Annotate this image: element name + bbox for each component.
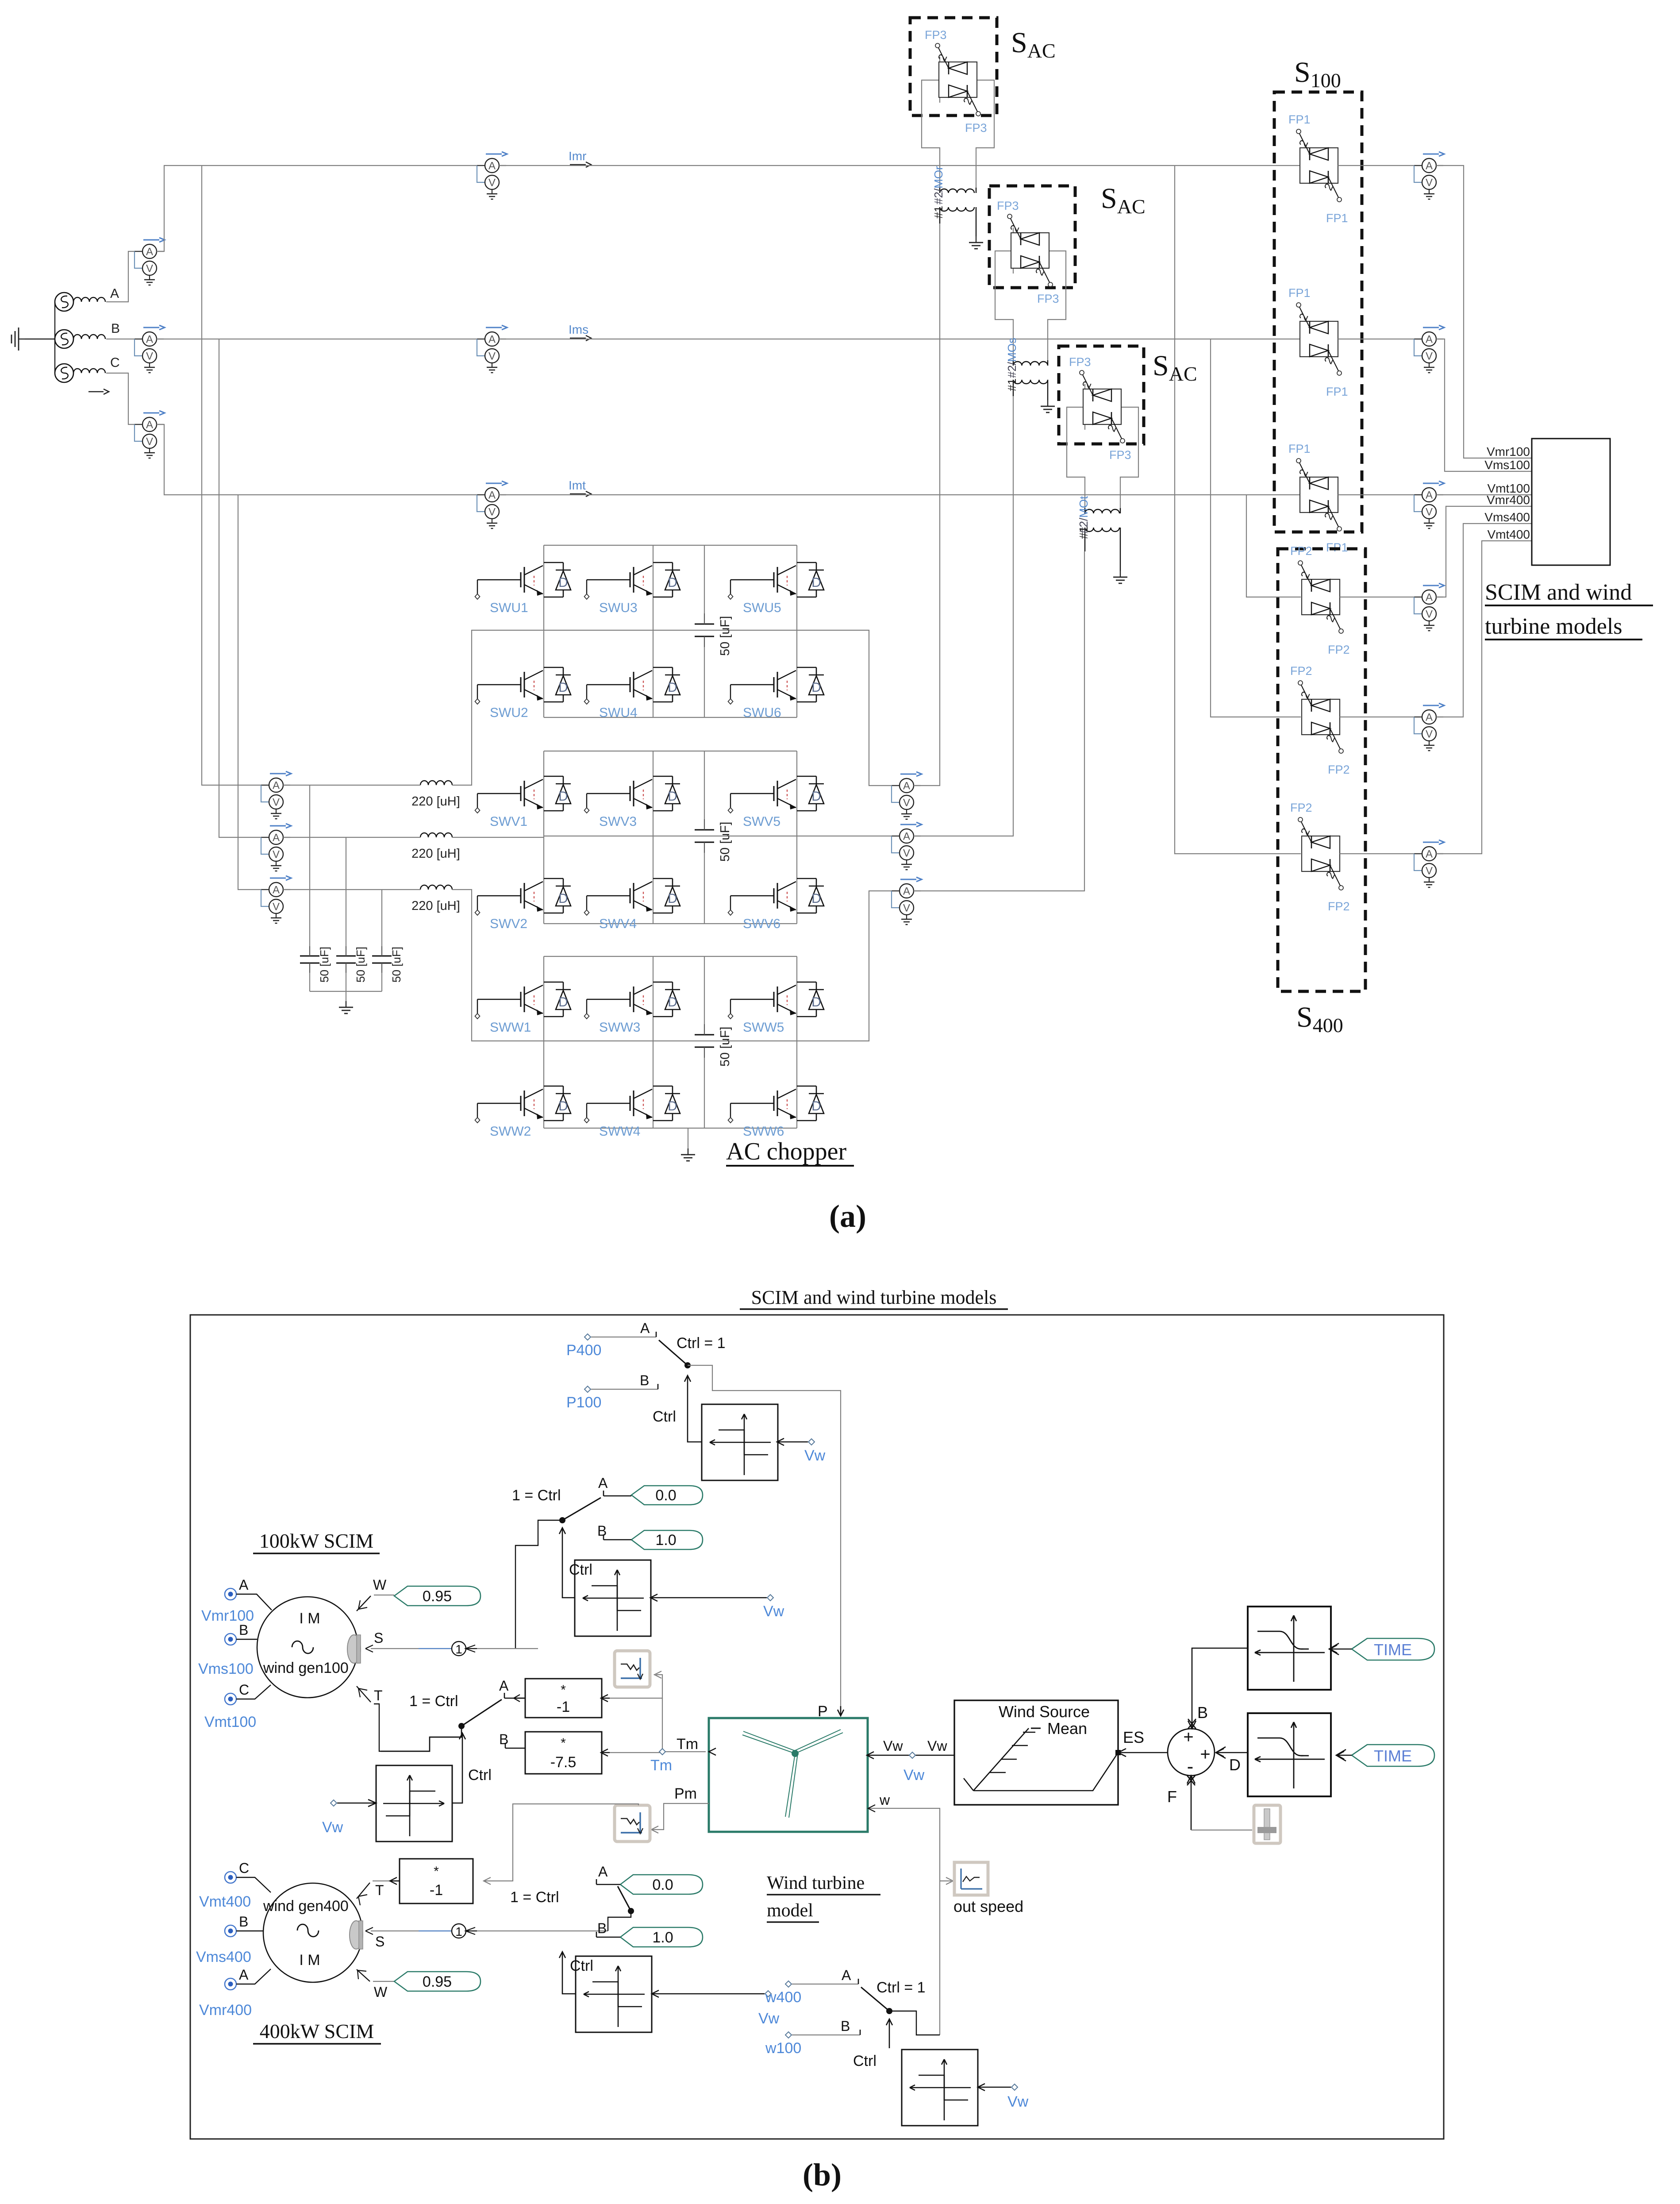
svg-text:Vms400: Vms400: [1484, 510, 1530, 524]
thyristor pair S400 at y=1929: [1298, 817, 1343, 890]
wire bypass outline phase r: [939, 57, 940, 103]
svg-text:Vw: Vw: [322, 1819, 343, 1836]
comparator Ctrl box 3 (mirrored): [376, 1765, 452, 1842]
svg-text:w100: w100: [765, 2040, 801, 2057]
svg-text:FP3: FP3: [1109, 448, 1131, 462]
multiplier * -1 (400kW): [390, 1859, 473, 1903]
IGBT SWW4 with antiparallel diode: [584, 1086, 680, 1123]
switch5 arm and dot: [861, 1987, 892, 2014]
wire Ims to S400 phase s: [1211, 339, 1301, 717]
svg-text:B: B: [640, 1372, 649, 1388]
wire S100 s to meter: [1338, 339, 1422, 339]
chopper bridge V frame: [544, 751, 797, 924]
svg-text:SWV3: SWV3: [599, 814, 637, 829]
wire Vmt400 riser: [1436, 541, 1532, 854]
svg-text:1 = Ctrl: 1 = Ctrl: [409, 1693, 458, 1710]
svg-text:Ctrl: Ctrl: [569, 1561, 592, 1578]
wire F to slider: [1191, 1830, 1252, 1830]
thyristor pair S100 at y=1118: [1296, 459, 1342, 531]
dc capacitor 50uF bridge V: [704, 751, 705, 924]
switch5 A input: [792, 1967, 858, 1984]
caption AC chopper: [726, 1138, 854, 1166]
svg-text:Ctrl = 1: Ctrl = 1: [877, 1979, 926, 1996]
wire cap tap x=863: [381, 890, 382, 946]
turbine Tm input: [709, 1748, 716, 1755]
IGBT SWV3 with antiparallel diode: [584, 776, 680, 813]
svg-text:SWU4: SWU4: [599, 705, 638, 720]
comparator Ctrl box 4: [576, 1956, 652, 2032]
ammeter/voltmeter chopper output U: [892, 772, 922, 819]
svg-text:1: 1: [455, 1642, 462, 1656]
switch5 B input: [792, 2018, 860, 2035]
svg-text:Mean: Mean: [1047, 1719, 1087, 1738]
svg-text:#2/MOr: #2/MOr: [932, 166, 945, 204]
wire V output to transformer s: [914, 396, 1013, 836]
ammeter/voltmeter phase A: [135, 238, 165, 285]
svg-text:*: *: [434, 1864, 439, 1879]
svg-text:#1: #1: [932, 206, 945, 219]
gate labels FP3 phase s: [997, 199, 1059, 305]
wire switch4 to S net 400: [608, 1911, 631, 1931]
gate labels FP3 phase t: [1069, 355, 1131, 462]
Ctrl output arrow box2: [559, 1528, 592, 1598]
caption SCIM and wind turbine models (title): [740, 1287, 1008, 1309]
out speed monitor icon: [953, 1862, 1023, 1915]
svg-text:ES: ES: [1123, 1728, 1144, 1746]
thyristor pair S_AC phase s: [1007, 214, 1053, 287]
svg-text:FP2: FP2: [1290, 801, 1312, 814]
turbine w output: [868, 1792, 953, 2035]
svg-text:Ctrl: Ctrl: [468, 1767, 492, 1784]
svg-text:50 [uF]: 50 [uF]: [718, 616, 732, 656]
svg-text:SWW1: SWW1: [490, 1020, 531, 1035]
Vw input box5: [978, 2084, 1029, 2110]
svg-text:SWU1: SWU1: [490, 601, 528, 615]
switch P: B input: [591, 1372, 658, 1389]
svg-text:FP1: FP1: [1288, 442, 1311, 455]
Vw input box2: [650, 1594, 784, 1620]
svg-text:50 [uF]: 50 [uF]: [390, 947, 403, 983]
ammeter/voltmeter phase C: [135, 411, 165, 458]
node w100: [765, 2032, 801, 2057]
switch P arm and dot: [659, 1340, 691, 1368]
wire lag1 input: [654, 1671, 662, 1699]
svg-text:100kW SCIM: 100kW SCIM: [259, 1530, 374, 1552]
svg-text:S: S: [375, 1934, 384, 1950]
wire V output: [797, 836, 900, 836]
svg-text:FP2: FP2: [1328, 643, 1350, 656]
wire Vms400 riser: [1436, 524, 1532, 717]
thyristor pair S400 at y=1620: [1298, 681, 1343, 753]
IGBT SWU2 with antiparallel diode: [475, 667, 571, 704]
svg-text:Vmr400: Vmr400: [1487, 493, 1530, 507]
wire meter W to inductor: [283, 890, 544, 1041]
IGBT SWW2 with antiparallel diode: [475, 1086, 571, 1123]
caption Wind turbine model: [767, 1873, 880, 1922]
svg-text:50 [uF]: 50 [uF]: [718, 822, 732, 862]
svg-text:400kW SCIM: 400kW SCIM: [260, 2020, 374, 2042]
transformer winding labels phase r: [932, 166, 945, 219]
svg-text:Vw: Vw: [883, 1738, 903, 1754]
wire switch5 to w net: [889, 2011, 940, 2035]
ammeter/voltmeter right column y=1929: [1414, 840, 1444, 887]
ammeter/voltmeter right column y=1118: [1414, 481, 1444, 528]
svg-text:B: B: [239, 1914, 248, 1930]
node A (Vmr400): [199, 1967, 271, 2019]
chopper bridge U frame: [544, 545, 797, 717]
svg-text:(a): (a): [829, 1198, 866, 1234]
svg-text:B: B: [597, 1920, 607, 1936]
node w400: [765, 1981, 801, 2006]
svg-text:SWU3: SWU3: [599, 601, 638, 615]
caption SCIM and wind turbine models: [1485, 580, 1653, 640]
caption 100kW SCIM: [253, 1530, 380, 1553]
transformer winding labels phase t: [1077, 496, 1090, 539]
wire meter U to inductor: [283, 630, 544, 785]
svg-text:SCIM and wind: SCIM and wind: [1485, 580, 1632, 605]
node C (Vmt400): [199, 1860, 271, 1910]
svg-text:A: A: [239, 1967, 249, 1983]
wire cap bottom: [346, 973, 346, 991]
svg-text:D: D: [1229, 1756, 1241, 1774]
svg-text:+: +: [1183, 1727, 1193, 1747]
wire drop phase A to chopper input: [202, 166, 269, 785]
svg-text:Imr: Imr: [569, 149, 586, 163]
svg-text:SWV6: SWV6: [743, 917, 780, 931]
svg-text:50 [uF]: 50 [uF]: [718, 1027, 732, 1067]
node B (Vms100): [198, 1622, 257, 1677]
svg-text:B: B: [499, 1731, 508, 1747]
svg-text:A: A: [239, 1577, 249, 1593]
svg-text:#1: #1: [1077, 526, 1090, 539]
TIME capsule 2: [1336, 1745, 1434, 1766]
IGBT SWU4 with antiparallel diode: [584, 667, 680, 704]
ammeter/voltmeter chopper input U: [261, 771, 291, 819]
multiplier * -7.5: [525, 1732, 610, 1774]
TIME capsule 1: [1329, 1638, 1434, 1660]
caption 400kW SCIM: [253, 2020, 381, 2044]
svg-text:A: A: [499, 1678, 509, 1694]
svg-text:SWV1: SWV1: [490, 814, 527, 829]
thyristor pair S400 at y=1349: [1298, 561, 1343, 633]
IGBT SWU5 with antiparallel diode: [728, 563, 824, 599]
svg-text:SWW4: SWW4: [599, 1124, 640, 1139]
ammeter/voltmeter chopper output W: [892, 877, 922, 925]
switch1 A stub: [598, 1475, 631, 1496]
S_AC soft starter block phase s (dashed box): [989, 186, 1075, 288]
svg-text:Vmr400: Vmr400: [199, 2002, 252, 2019]
svg-text:Ctrl: Ctrl: [570, 1957, 593, 1974]
node P100: [566, 1386, 601, 1411]
wire S400 s to meter: [1340, 717, 1422, 717]
wire cap tap x=782: [346, 837, 346, 946]
induction machine wind gen400: [263, 1883, 363, 1982]
switch3 A stub: [499, 1678, 525, 1698]
switch1 B stub: [597, 1523, 631, 1540]
gate labels FP1: [1288, 113, 1348, 225]
ground transformer phase s: [1041, 400, 1055, 412]
wire meter V to inductor: [283, 837, 544, 838]
source phase A: [55, 293, 105, 311]
wire Imt rail: [499, 494, 1300, 495]
svg-text:T: T: [374, 1688, 383, 1703]
IGBT SWV1 with antiparallel diode: [475, 776, 571, 813]
switch4 B stub: [596, 1920, 620, 1937]
wire cap bottom: [381, 973, 382, 991]
Ctrl output arrow box4: [559, 1952, 593, 1994]
turbine Vw input: [867, 1738, 954, 1784]
machine T output: [357, 1686, 461, 1751]
svg-text:0.95: 0.95: [423, 1973, 452, 1990]
svg-text:0.95: 0.95: [423, 1588, 452, 1605]
ES wire wind source input: [1115, 1728, 1168, 1757]
machine 400 S input and merge node 1: [365, 1924, 608, 1950]
svg-text:FP1: FP1: [1326, 385, 1348, 398]
svg-text:220 [uH]: 220 [uH]: [411, 794, 460, 809]
svg-text:A: A: [110, 286, 119, 301]
wire Vmr100 riser: [1436, 166, 1532, 458]
net label Imr: [569, 149, 591, 167]
svg-text:Vms400: Vms400: [196, 1949, 251, 1965]
dc capacitor 50uF bridge U: [704, 545, 705, 717]
machine 400 W output + capsule 0.95: [357, 1969, 481, 2000]
svg-text:Vms100: Vms100: [198, 1661, 254, 1677]
svg-text:w400: w400: [765, 1989, 801, 2006]
node P400: [566, 1334, 601, 1359]
svg-text:W: W: [373, 1577, 387, 1593]
wind turbine model box: [709, 1718, 868, 1832]
wire cap bottom: [309, 973, 310, 991]
svg-text:turbine models: turbine models: [1485, 614, 1622, 639]
transformer #2/MOs phase s: [1013, 360, 1048, 400]
wire U output to transformer r: [914, 223, 940, 786]
summing junction: [1168, 1727, 1215, 1777]
wire Ims rail: [499, 339, 1300, 339]
gate labels FP1: [1288, 442, 1348, 554]
wire W bridge to ground: [688, 1128, 688, 1148]
IGBT SWV5 with antiparallel diode: [728, 776, 824, 813]
inductor 220uH phase U: [420, 781, 452, 785]
ground AC chopper: [681, 1148, 695, 1161]
blue tap arrow phase s: [0, 0, 0, 0]
ground filter caps: [339, 1001, 353, 1013]
lag icon 1: [615, 1651, 650, 1687]
svg-text:Ctrl: Ctrl: [853, 2053, 877, 2069]
capsule 1.0 (switch4): [620, 1927, 703, 1947]
S100 soft starter (dashed box): [1274, 92, 1362, 532]
svg-text:FP2: FP2: [1328, 900, 1350, 913]
switch3 arm dot and output: [381, 1699, 502, 1751]
svg-text:A: A: [598, 1475, 608, 1491]
node Tm: [650, 1736, 698, 1774]
svg-text:Vw: Vw: [763, 1603, 784, 1620]
wire S400 r to meter: [1340, 597, 1422, 597]
IGBT SWU6 with antiparallel diode: [728, 667, 824, 704]
IGBT SWU1 with antiparallel diode: [475, 563, 571, 599]
Ctrl output arrow box3: [452, 1733, 492, 1803]
thyristor pair S100 at y=766: [1296, 303, 1342, 375]
wire cap bus: [310, 991, 382, 1001]
wire switch1 to S net: [515, 1520, 562, 1649]
lag icon 2 (Pm): [615, 1805, 650, 1842]
svg-text:FP1: FP1: [1288, 286, 1311, 300]
switch3 B stub: [499, 1731, 525, 1748]
IGBT SWW5 with antiparallel diode: [728, 982, 824, 1019]
wire Imr to S400 phase r: [1175, 166, 1301, 854]
wire meter C down to Imt rail: [157, 424, 485, 495]
svg-text:C: C: [239, 1682, 249, 1698]
induction machine wind gen100: [257, 1597, 361, 1698]
wire S100 r to meter: [1338, 165, 1422, 166]
capacitor 50uF x=700: [300, 946, 319, 973]
IGBT SWU3 with antiparallel diode: [584, 563, 680, 599]
svg-text:0.0: 0.0: [655, 1487, 676, 1504]
svg-text:FP3: FP3: [1037, 292, 1059, 305]
svg-text:Wind Source: Wind Source: [999, 1703, 1090, 1721]
svg-text:-: -: [1187, 1756, 1194, 1777]
thyristor pair S_AC phase r: [935, 43, 980, 116]
capsule 0.0 (switch4): [620, 1875, 703, 1894]
machine 400 T input: [357, 1881, 400, 1905]
capacitor 50uF x=782: [336, 946, 356, 973]
svg-text:50 [uF]: 50 [uF]: [318, 947, 331, 983]
svg-text:Ctrl = 1: Ctrl = 1: [677, 1335, 726, 1352]
svg-text:Vw: Vw: [1007, 2093, 1029, 2110]
IGBT SWW3 with antiparallel diode: [584, 982, 680, 1019]
thyristor pair S_AC phase t: [1079, 370, 1125, 443]
svg-text:I M: I M: [299, 1610, 320, 1627]
wire Imt to S400 phase t: [1246, 495, 1301, 597]
ground transformer phase r: [969, 236, 983, 249]
svg-text:1.0: 1.0: [655, 1532, 676, 1549]
svg-text:1.0: 1.0: [652, 1929, 673, 1946]
svg-text:Vmt400: Vmt400: [199, 1893, 251, 1910]
blue tap arrow phase r: [0, 0, 0, 0]
gate labels FP2: [1290, 801, 1350, 913]
Ctrl arrow switch5: [853, 2019, 892, 2069]
svg-text:FP3: FP3: [1069, 355, 1091, 369]
svg-text:B: B: [597, 1523, 607, 1539]
inductor 220uH phase V: [420, 833, 452, 837]
F input to summer: [1167, 1776, 1195, 1830]
S_AC soft starter block phase t (dashed box): [1059, 346, 1144, 444]
svg-text:I M: I M: [299, 1952, 320, 1969]
transformer #2/MOt phase t: [1085, 508, 1120, 571]
Vw input box3: [322, 1799, 376, 1836]
svg-text:W: W: [374, 1984, 388, 2000]
net label Imt: [569, 478, 591, 497]
comparator Ctrl box 5: [902, 2050, 978, 2126]
panel b border: [190, 1315, 1444, 2139]
wire meter B to Ims rail: [157, 339, 485, 339]
svg-text:Tm: Tm: [650, 1757, 672, 1774]
node A (Vmr100): [201, 1577, 272, 1624]
svg-text:220 [uH]: 220 [uH]: [411, 847, 460, 861]
ground transformer phase t: [1113, 571, 1127, 583]
inductor 220uH phase W: [420, 885, 452, 890]
machine S input wire and merge node 1: [365, 1630, 538, 1656]
wire Vmt100 into model box: [1436, 494, 1532, 495]
arrow below source C: [88, 389, 109, 394]
ground (source neutral): [12, 328, 55, 351]
wire meter A up to Imr rail: [157, 166, 485, 251]
ammeter/voltmeter chopper output V: [892, 822, 922, 870]
svg-text:(b): (b): [803, 2157, 842, 2192]
wire S400 t to meter: [1340, 853, 1422, 854]
svg-text:#1: #1: [1005, 378, 1019, 391]
ammeter/voltmeter Imr: [477, 152, 507, 199]
IGBT SWW1 with antiparallel diode: [475, 982, 571, 1019]
source bus: [54, 302, 55, 373]
svg-text:Vw: Vw: [927, 1738, 947, 1754]
wire S100 t to meter: [1338, 494, 1422, 495]
wire phase A to meter: [106, 251, 142, 302]
svg-text:Imt: Imt: [569, 478, 586, 492]
B input to summer: [1188, 1648, 1248, 1729]
wire Vmr400 riser: [1436, 506, 1532, 597]
svg-text:SWW3: SWW3: [599, 1020, 640, 1035]
svg-text:FP3: FP3: [965, 121, 987, 135]
svg-text:AC chopper: AC chopper: [726, 1138, 847, 1165]
svg-text:FP2: FP2: [1328, 763, 1350, 776]
gate labels FP3 phase r: [925, 28, 987, 135]
svg-text:Ims: Ims: [569, 323, 588, 336]
svg-text:model: model: [767, 1900, 813, 1921]
svg-text:FP2: FP2: [1290, 664, 1312, 678]
Vw input box1: [777, 1438, 826, 1464]
svg-text:B: B: [239, 1622, 248, 1638]
switch1 arm and dot: [559, 1498, 601, 1523]
wire bypass outline phase s: [1013, 227, 1014, 274]
IGBT SWV2 with antiparallel diode: [475, 879, 571, 915]
svg-text:SCIM and wind turbine models: SCIM and wind turbine models: [751, 1287, 997, 1308]
wire Imr rail: [499, 165, 1300, 166]
chopper bridge W mid rail: [544, 1040, 797, 1041]
wire phase B to meter: [106, 339, 142, 339]
wire W output jog: [797, 891, 900, 1041]
capsule 1.0: [631, 1530, 703, 1549]
svg-text:B: B: [841, 2018, 850, 2034]
svg-text:FP2: FP2: [1290, 544, 1312, 558]
svg-text:A: A: [598, 1864, 608, 1880]
transformer #2/MOr phase r: [940, 188, 976, 236]
Ctrl output arrow box1: [653, 1376, 702, 1442]
ammeter/voltmeter chopper input V: [261, 824, 291, 871]
svg-text:out speed: out speed: [953, 1897, 1023, 1915]
svg-text:F: F: [1167, 1788, 1177, 1806]
svg-text:Vms100: Vms100: [1484, 458, 1530, 472]
svg-text:T: T: [375, 1882, 384, 1898]
switch4 A stub: [596, 1864, 620, 1884]
chopper bridge W frame: [544, 956, 797, 1128]
ammeter/voltmeter right column y=1349: [1414, 583, 1444, 631]
machine W output + capsule 0.95: [357, 1577, 481, 1611]
svg-text:1 = Ctrl: 1 = Ctrl: [510, 1889, 559, 1906]
svg-text:Vw: Vw: [903, 1767, 925, 1784]
gate labels FP2: [1290, 664, 1350, 776]
ammeter/voltmeter phase B: [135, 325, 165, 373]
wire P switch to turbine P input: [688, 1365, 841, 1712]
capsule 0.0: [631, 1486, 703, 1505]
Vw input box4: [652, 1990, 780, 2027]
D input to summer: [1216, 1747, 1248, 1774]
ammeter/voltmeter Ims: [477, 325, 507, 373]
svg-text:-7.5: -7.5: [550, 1754, 577, 1771]
svg-text:FP3: FP3: [997, 199, 1019, 212]
chopper bridge U mid rail: [544, 630, 797, 631]
multiplier * -1 (100kW): [514, 1679, 610, 1718]
svg-text:Vw: Vw: [758, 2010, 780, 2027]
